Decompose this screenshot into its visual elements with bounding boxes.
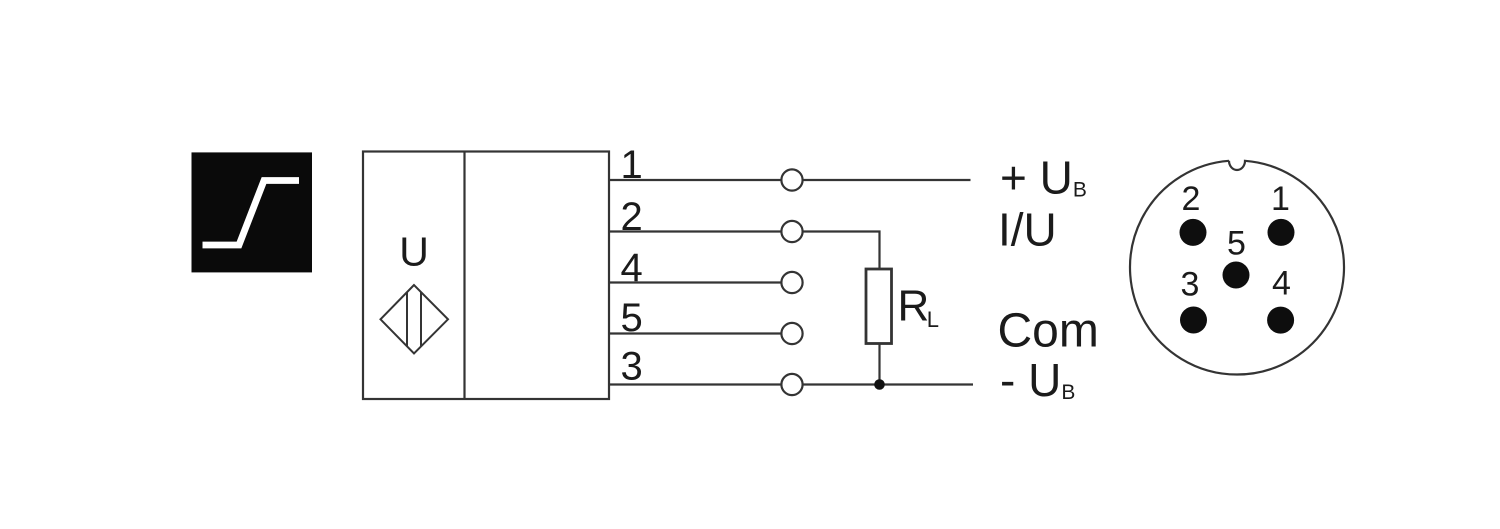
svg-text:1: 1 — [1271, 180, 1290, 218]
wire 2 — [609, 232, 880, 270]
svg-text:4: 4 — [1272, 265, 1291, 303]
connector pin 2 — [1180, 219, 1207, 246]
terminal circle 5 — [781, 323, 802, 344]
svg-text:I/U: I/U — [998, 204, 1057, 256]
svg-text:- UB: - UB — [1000, 354, 1075, 406]
svg-text:5: 5 — [1227, 225, 1246, 263]
connector circle with keyway notch — [1130, 161, 1344, 375]
wire 4 — [609, 281, 783, 283]
svg-text:4: 4 — [621, 246, 643, 290]
connector pin 5 — [1223, 262, 1250, 289]
terminal circle 4 — [781, 272, 802, 293]
svg-text:RL: RL — [898, 282, 940, 333]
wire 1 — [609, 179, 971, 181]
wire 5 — [609, 332, 783, 334]
transducer diamond — [381, 285, 449, 354]
connector pin 3 — [1180, 307, 1207, 334]
sensor box — [363, 152, 609, 400]
svg-text:3: 3 — [1181, 266, 1200, 304]
resistor RL — [866, 269, 892, 344]
wire resistor bottom — [878, 344, 880, 385]
svg-text:2: 2 — [621, 195, 643, 239]
wire 3 — [609, 383, 973, 385]
svg-text:+ UB: + UB — [1000, 152, 1087, 204]
terminal circle 1 — [781, 169, 802, 190]
connector pin 1 — [1268, 219, 1295, 246]
connector pin 4 — [1267, 307, 1294, 334]
terminal circle 2 — [781, 221, 802, 242]
svg-text:U: U — [399, 229, 429, 275]
svg-text:3: 3 — [621, 345, 643, 389]
svg-text:5: 5 — [621, 296, 643, 340]
svg-text:1: 1 — [621, 143, 643, 187]
junction dot — [874, 379, 885, 390]
terminal circle 3 — [781, 374, 802, 395]
sensor box divider — [463, 152, 465, 400]
svg-text:Com: Com — [998, 304, 1099, 357]
analog output icon — [192, 152, 313, 272]
svg-text:2: 2 — [1182, 180, 1201, 218]
